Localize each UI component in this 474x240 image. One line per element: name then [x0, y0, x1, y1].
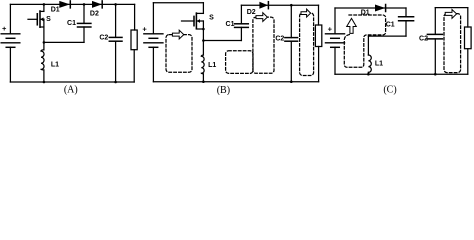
node: C L1 bottom dot — [367, 73, 370, 76]
current arrow loop2 (B) — [256, 13, 267, 22]
wire: A battery bottom lead — [9, 47, 11, 82]
current loop 2a (B L1-C1 small) dashed — [226, 51, 253, 74]
wire: B bottom rail — [153, 81, 318, 83]
load R (B) — [315, 5, 321, 82]
load R (A) — [131, 4, 137, 82]
diode D2 (A) — [92, 1, 102, 8]
svg-text:L1: L1 — [208, 62, 216, 69]
wire: C L1 to C1 link — [368, 35, 406, 37]
battery VIN (C) — [326, 34, 345, 48]
svg-text:(B): (B) — [217, 85, 230, 95]
capacitor C1 (A) — [78, 4, 91, 42]
svg-text:+: + — [328, 24, 333, 33]
wire: A source to C1 bottom link — [44, 41, 84, 43]
current arrow loop1 (B) — [172, 30, 183, 39]
current loop 2 (C C2-load) dashed — [444, 14, 461, 73]
svg-text:D2: D2 — [247, 9, 256, 16]
node: A L1 bottom dot — [43, 81, 46, 84]
wire: C output top segment — [435, 7, 468, 9]
wire: A battery top lead — [9, 4, 11, 33]
capacitor C2 (A) — [109, 4, 122, 82]
inductor L1 (B) — [201, 41, 204, 82]
node: C C2 bottom dot — [434, 73, 437, 76]
svg-text:(C): (C) — [383, 84, 396, 95]
node: B source stub dot — [202, 28, 205, 31]
svg-text:C2: C2 — [275, 35, 284, 42]
node: B C2 bottom dot — [290, 80, 293, 83]
capacitor C2 (C) — [427, 8, 442, 75]
inductor L1 (A) — [41, 42, 44, 82]
load R (C) — [465, 8, 472, 75]
svg-text:S: S — [209, 15, 214, 22]
svg-text:+: + — [2, 24, 7, 33]
diode D1 (C) — [375, 5, 386, 12]
svg-text:C1: C1 — [386, 21, 395, 28]
wire: B battery top lead — [152, 3, 154, 34]
wire: C top rail — [335, 7, 406, 9]
svg-text:S: S — [46, 16, 51, 23]
node: B L1 bottom dot — [202, 80, 205, 83]
current loop 3 (B C2-load) dashed — [300, 13, 314, 76]
wire: B output rail — [241, 4, 318, 6]
node: B C2 tap dot — [290, 4, 293, 7]
svg-text:L1: L1 — [375, 61, 383, 68]
svg-text:(A): (A) — [64, 85, 78, 95]
current arrow loop1 (C up) — [347, 18, 357, 33]
node: A drain junction dot — [43, 3, 46, 6]
capacitor C2 (B) — [285, 5, 298, 82]
node: A C2 bottom dot — [114, 81, 117, 84]
svg-text:L1: L1 — [51, 61, 59, 68]
battery VIN (B) — [144, 34, 163, 48]
wire: A top rail — [10, 3, 134, 5]
current loop 1 (C battery-D1-C1-L1) dashed hexagon — [344, 15, 385, 67]
wire: C bottom rail — [335, 73, 468, 75]
svg-text:C1: C1 — [67, 20, 76, 27]
battery VIN (A) — [1, 34, 20, 48]
svg-text:D1: D1 — [51, 6, 60, 13]
current arrow loop3 (B) — [301, 9, 311, 17]
svg-text:C2: C2 — [99, 35, 108, 42]
current arrow loop2 (C) — [445, 10, 456, 19]
inductor L1 (C) — [368, 36, 371, 74]
transistor S (A NMOS switch) — [28, 4, 44, 42]
svg-text:C1: C1 — [226, 21, 235, 28]
node: A source junction dot — [43, 41, 46, 44]
wire: B C1 return link — [203, 40, 241, 42]
svg-text:D2: D2 — [90, 11, 99, 18]
wire: C battery top lead — [334, 8, 336, 34]
node: A C2 tap dot — [114, 3, 117, 6]
current loop 2 (B C1-D2 tall) dashed — [253, 17, 274, 73]
capacitor C1 (B) — [235, 5, 249, 40]
wire: B battery bottom lead — [152, 47, 154, 81]
current loop 1 (B battery-switch-L1) dashed — [166, 35, 192, 73]
node: B C1 return junction dot — [202, 39, 205, 42]
wire: A bottom rail — [10, 81, 134, 83]
diode D1 (A) — [59, 1, 70, 8]
svg-text:C2: C2 — [419, 35, 428, 42]
svg-text:+: + — [142, 25, 147, 34]
transistor S (B NMOS switch) — [182, 3, 204, 41]
wire: B input top rail — [153, 2, 203, 4]
capacitor C1 (C) — [399, 8, 414, 36]
node: A C1 tap dot — [83, 3, 86, 6]
diode D2 (B) — [259, 2, 268, 9]
wire: C battery bottom lead — [334, 47, 336, 74]
